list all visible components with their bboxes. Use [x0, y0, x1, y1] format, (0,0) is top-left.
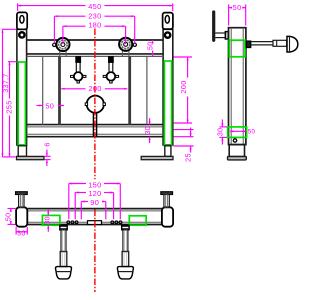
front left mount circle middle: [59, 40, 68, 49]
side view green box upper: [229, 40, 245, 57]
bottom view left T-bolt cap: [16, 192, 28, 195]
bottom view right end cap: [162, 207, 173, 226]
centerline front view (red dash-dot): [94, 29, 96, 180]
dim 337,7 extension lines: [2, 28, 16, 30]
dim 230 extension lines: [53, 16, 55, 43]
front left bracket slot hole: [20, 15, 24, 23]
front left foot section: [18, 146, 26, 157]
front right mount circle middle: [121, 40, 130, 49]
front right foot section: [165, 146, 171, 157]
dim 200 right line: [187, 57, 189, 78]
bottom view bar inner bottom line: [27, 221, 162, 223]
side view water supply pipe horizontal: [215, 32, 225, 34]
side view water supply pipe vertical: [212, 12, 215, 40]
front right bracket slot hole: [165, 15, 169, 23]
front lower rail top edge: [27, 124, 164, 126]
bottom view right hole circle 1: [111, 221, 114, 224]
svg-text:120: 120: [88, 189, 101, 198]
svg-text:50: 50: [233, 3, 242, 12]
svg-text:50: 50: [147, 41, 154, 50]
front right post green highlight: [164, 61, 171, 146]
front left mount circle inner: [61, 43, 65, 47]
side view small hole: [233, 139, 236, 142]
bottom view bar bottom edge: [27, 224, 162, 226]
svg-text:450: 450: [88, 2, 101, 11]
front left hanger bolt: [71, 57, 86, 83]
bdim 30 extension lines: [15, 227, 17, 235]
bottom view left end cap: [16, 207, 27, 226]
front left post: [17, 29, 27, 145]
front drain circle left lug: [85, 103, 87, 106]
front inner upright bar left: [58, 56, 61, 124]
side view arm pipe: [251, 41, 273, 43]
bdim 50 extension lines: [8, 208, 16, 210]
dim 255 line: [9, 62, 11, 99]
side view post inner left line: [230, 28, 232, 145]
front left anchor small circle: [53, 43, 56, 46]
side view green box lower: [228, 127, 247, 137]
dim 200 right extension lines: [174, 56, 193, 58]
dim 180 line: [63, 25, 86, 27]
centerline bottom view (red dash-dot): [94, 210, 96, 293]
dim 230 line: [54, 15, 85, 17]
svg-text:150: 150: [88, 180, 101, 189]
front right mount circle outer: [119, 38, 132, 51]
bdim 90 line: [81, 201, 88, 203]
front inner upright bar right: [128, 56, 131, 124]
bottom view left green box: [42, 215, 60, 225]
side dim 30 extension lines: [220, 126, 228, 128]
bottom view right T-bolt stem: [164, 194, 169, 207]
front left mount plate stubs: [59, 51, 61, 57]
bottom view center plate: [88, 221, 102, 225]
svg-text:200: 200: [88, 84, 101, 93]
bottom view left hole circle 3: [75, 221, 78, 224]
front drain circle right lug: [103, 103, 105, 106]
svg-text:30: 30: [17, 231, 26, 238]
front drain pipe circle: [87, 96, 104, 113]
bottom view right green box: [129, 216, 146, 225]
bdim 30 green line: [47, 209, 49, 215]
dim 255 extension line: [8, 61, 17, 63]
side dim 50 label arrows: [230, 130, 247, 132]
side view base plate: [228, 157, 247, 160]
side view post inner right line: [242, 28, 244, 145]
bdim 90 extension lines: [80, 202, 82, 220]
dim 6 extension lines: [45, 155, 51, 157]
front right mount plate stubs: [122, 51, 124, 57]
bottom view left hole circle 1: [67, 221, 70, 224]
svg-text:200: 200: [179, 80, 188, 93]
front lower rail inner bottom line: [27, 133, 164, 135]
svg-text:50: 50: [248, 129, 256, 136]
dim 450 extension lines: [17, 3, 19, 10]
dim 50 rail extension lines: [154, 39, 156, 41]
dim 200 middle line: [61, 88, 85, 90]
side view supply pipe flange: [225, 32, 228, 39]
dim 337,7 line: [2, 29, 4, 157]
dim 25 extension lines: [174, 129, 194, 131]
svg-text:255: 255: [5, 100, 14, 113]
svg-text:25: 25: [183, 153, 192, 162]
dim 180 extension lines: [62, 26, 64, 44]
front top rail lower back edge: [27, 55, 164, 57]
front left bracket pivot circle: [19, 32, 24, 37]
bottom view right hole circle 3: [119, 221, 122, 224]
svg-text:30: 30: [145, 126, 152, 135]
bottom view right leg: [117, 225, 133, 279]
front inner upright thin right: [146, 56, 148, 124]
svg-text:6: 6: [42, 142, 51, 146]
svg-text:30: 30: [45, 216, 52, 225]
front left base plate: [17, 156, 45, 159]
side view arm fitting: [246, 41, 250, 47]
front top rail bottom edge: [27, 53, 164, 55]
bdim 120 extension lines: [74, 193, 76, 220]
bdim 150 extension lines: [68, 184, 70, 220]
dim 30 rail line: [149, 118, 151, 124]
side view arm middle section: [273, 40, 287, 46]
bottom view left leg: [56, 225, 72, 279]
front lower rail bottom edge: [27, 136, 164, 138]
side dim 50 top line: [229, 7, 232, 9]
front right hanger bolt: [103, 57, 118, 83]
front right top bracket: [163, 13, 173, 30]
side view post: [229, 28, 246, 145]
dim 450 line: [18, 5, 86, 7]
front right bracket pivot circle: [165, 33, 170, 38]
bdim 120 line: [75, 192, 86, 194]
bottom view left hole circle 2: [71, 221, 74, 224]
svg-text:90: 90: [90, 198, 99, 207]
front lower rail inner top line: [27, 126, 164, 128]
front right anchor small circle: [133, 43, 136, 46]
bdim 150 line: [69, 183, 86, 185]
bottom view bar inner top line: [27, 210, 162, 212]
bottom view right T-bolt cap: [161, 192, 173, 195]
side dim 30 line: [221, 120, 223, 127]
front right post: [163, 29, 173, 145]
front left top bracket: [17, 12, 27, 29]
bottom view left T-bolt stem: [19, 194, 24, 207]
bottom view right hole circle 2: [115, 221, 118, 224]
svg-text:230: 230: [88, 12, 101, 21]
svg-text:180: 180: [88, 21, 101, 30]
bdim 50 line: [10, 209, 12, 212]
svg-text:30: 30: [218, 128, 225, 137]
dim 50 channel line: [37, 105, 43, 107]
dim 6 line: [46, 150, 48, 157]
dim 25 line: [190, 128, 192, 137]
front right mount circle inner: [124, 42, 128, 46]
bdim 30 line: [16, 231, 27, 233]
front right base plate: [141, 156, 173, 159]
svg-text:50: 50: [45, 101, 54, 110]
front left mount circle outer: [56, 38, 69, 51]
front drain outlet pipe lines: [92, 112, 94, 136]
front left post green highlight: [18, 62, 25, 145]
front top rail top edge: [27, 39, 164, 41]
side view foot section: [229, 145, 244, 157]
svg-text:50: 50: [6, 213, 13, 222]
dim 50 rail line: [152, 40, 154, 41]
side dim 50 top extension lines: [228, 5, 230, 26]
front inner upright thin left: [42, 56, 44, 124]
side view arm end cap: [287, 36, 298, 52]
bottom view bar top edge: [27, 208, 162, 210]
